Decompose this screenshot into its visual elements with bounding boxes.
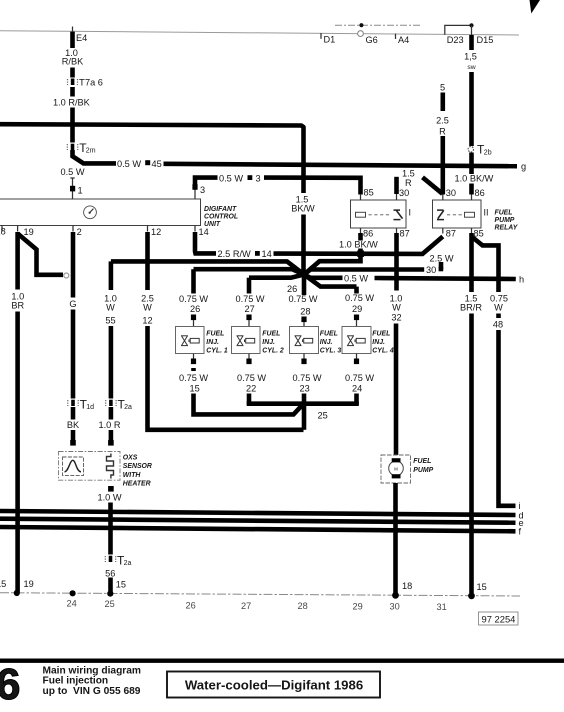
svg-text:0.5 W: 0.5 W [219,173,243,183]
wire segment crossing bus to T2m [70,108,75,143]
wire segment [440,93,445,112]
wire run to h [375,278,516,279]
junction node at relay I pin 86 [357,250,364,257]
svg-text:31: 31 [437,602,447,612]
svg-text:II: II [484,208,489,218]
svg-text:D1: D1 [324,35,336,45]
wire run to x=422.5 and diagonal up to relay II pin 87 [274,237,443,254]
injector 3 return wire to corner line [302,394,307,430]
svg-text:G: G [69,299,76,309]
top rail (thin continuation line) [0,31,519,35]
svg-text:HEATER: HEATER [123,481,151,488]
contact symbol [394,209,401,211]
svg-text:W: W [494,303,503,313]
relay I pin 87 tick [396,228,398,234]
wire segment below T7a [70,87,75,97]
junction dot above G6 [359,23,363,27]
svg-text:SENSOR: SENSOR [123,463,152,470]
relay II pin 87 tick [442,228,444,234]
svg-text:27: 27 [241,601,251,611]
injector 4 bottom pin [356,354,358,360]
connector T2a [105,400,107,406]
injector return bus [247,401,359,406]
pin 2 (bottom) [72,226,74,232]
rail junction dots [14,590,20,596]
tick D1 [320,33,322,39]
svg-text:29: 29 [352,304,362,314]
branch to ground point C [18,234,63,275]
svg-text:0.75 W: 0.75 W [236,294,265,304]
svg-text:R/BK: R/BK [62,57,84,67]
wire segment [469,35,474,50]
relay I pin 86 stub wire [358,233,363,241]
wire number 3 [248,175,253,180]
pump motor circle [389,461,404,476]
svg-text:87: 87 [446,229,456,239]
wire pin 19 upper [15,232,20,290]
svg-text:DIGIFANT: DIGIFANT [204,206,237,213]
svg-text:14: 14 [199,227,209,237]
svg-text:0.5 W: 0.5 W [344,273,368,283]
bracket D23 to D15 [445,25,472,34]
svg-text:PUMP: PUMP [495,217,515,224]
lambda sensor inner box [63,457,84,475]
wire down to i stub [499,330,516,506]
wire down to pump [394,324,399,457]
svg-text:5: 5 [440,83,445,93]
svg-text:30: 30 [390,602,400,612]
injector 1 bottom pin [193,354,195,360]
svg-text:22: 22 [246,384,256,394]
wire number 14 [255,251,260,256]
wire run down to lower T2a [108,503,113,555]
injector N1 feed wire [191,269,196,293]
svg-text:2a: 2a [124,404,132,411]
pin 3 (top) [194,184,196,199]
svg-text:CYL. 2: CYL. 2 [262,348,284,355]
injector 2 bottom pin [248,354,250,360]
svg-text:30: 30 [446,188,456,198]
relay II pin 30 tick [442,194,444,200]
wire bend from T2m to 0.5W/45 line [73,150,117,163]
pin stub into injector 2 [246,315,251,321]
svg-text:RELAY: RELAY [495,225,519,232]
svg-text:FUEL: FUEL [372,331,390,338]
branch to 0.75W/48 column [472,237,499,293]
injector 2 return wire [247,394,252,406]
wire 1.5 BR/R upper [469,233,474,292]
svg-text:12: 12 [142,316,152,326]
svg-text:3: 3 [200,185,205,195]
svg-text:87: 87 [400,229,410,239]
svg-text:55: 55 [105,316,115,326]
svg-text:30: 30 [399,188,409,198]
svg-text:PUMP: PUMP [413,467,433,474]
svg-text:30: 30 [426,265,436,275]
svg-text:19: 19 [24,579,34,589]
control unit box U1 [0,199,201,226]
svg-text:OXS: OXS [123,455,138,462]
svg-text:1: 1 [78,186,83,196]
relay I pin 85 tick [360,194,362,200]
wire segment to pin 86 [469,184,474,195]
wire pin3 up and right [195,178,218,186]
svg-text:M: M [394,466,398,471]
lambda curve [65,460,82,472]
ground point C (open circle) [64,273,69,278]
svg-text:7a 6: 7a 6 [85,78,103,88]
wire segment to T2b [469,72,474,146]
pin 14 (bottom) [194,226,196,232]
coil symbol [465,212,475,217]
connector T2a (lower) [104,556,106,562]
heater resistor zig-zag [107,454,114,479]
svg-text:45: 45 [152,159,162,169]
pin 19 (bottom) [17,226,19,232]
svg-text:up to VIN G 055 689: up to VIN G 055 689 [43,686,141,697]
svg-text:86: 86 [363,229,373,239]
svg-text:BK: BK [67,420,80,430]
svg-text:19: 19 [24,227,34,237]
svg-text:14: 14 [262,249,272,259]
svg-text:15: 15 [0,579,6,589]
dashed link [369,214,392,216]
relay II box [433,200,482,228]
injector 4 box [342,327,371,354]
svg-text:24: 24 [67,599,77,609]
bus vertical lower segment to fan [301,215,306,273]
fan link to OXS heater column [111,261,304,274]
svg-text:Water-cooled—Digifant 1986: Water-cooled—Digifant 1986 [185,678,363,693]
pin 12 (bottom) [147,226,149,232]
svg-text:97 2254: 97 2254 [482,613,516,624]
relay I box [351,200,407,228]
svg-text:0.5 W: 0.5 W [117,159,141,169]
fan link up-right to node 86 [304,253,361,275]
svg-text:g: g [521,162,526,172]
svg-text:0.75 W: 0.75 W [293,373,322,383]
svg-text:0.75 W: 0.75 W [179,373,208,383]
tick A4 [395,34,397,39]
wire 1.5 BR/R to rail [469,314,474,594]
svg-text:INJ.: INJ. [206,339,219,346]
wire from relay I pin 87 down [394,233,399,291]
svg-text:25: 25 [318,411,328,421]
svg-text:1.5: 1.5 [402,169,415,179]
svg-text:i: i [519,501,521,511]
svg-text:CONTROL: CONTROL [204,214,238,221]
svg-text:1.0 R/BK: 1.0 R/BK [53,98,91,108]
svg-text:W: W [106,303,115,313]
injector 3 symbol [295,336,313,346]
fan vertical down (injector 3 feed) [302,272,307,295]
connector T2m [66,144,68,150]
svg-text:2m: 2m [86,148,96,155]
svg-text:86: 86 [475,188,485,198]
svg-text:2.5 R/W: 2.5 R/W [218,249,252,259]
title box [167,672,380,698]
pin stub into injector 4 [354,315,359,321]
separator rule [0,659,564,663]
svg-text:FUEL: FUEL [413,458,431,465]
svg-text:28: 28 [300,307,310,317]
wire into OXS box [71,430,76,445]
svg-text:1.0 BK/W: 1.0 BK/W [455,173,494,183]
svg-text:INJ.: INJ. [320,339,333,346]
svg-text:15: 15 [477,582,487,592]
fan link to injector 1 [194,269,305,274]
svg-text:CYL. 4: CYL. 4 [372,348,394,355]
bus wire with corner [0,124,304,193]
node G6 (open circle on rail) [358,31,364,37]
svg-text:INJ.: INJ. [372,339,385,346]
svg-text:FUEL: FUEL [206,331,224,338]
svg-text:BK/W: BK/W [291,204,315,214]
pump brushes (black tabs) [392,458,401,462]
corner marker triangle (top right) [530,0,541,14]
wire down and corner right to injector return [148,326,304,430]
wire into OXS box [109,430,114,445]
wire segment above T7a [70,68,75,78]
wire segment to T1d [71,310,76,399]
svg-text:0.75 W: 0.75 W [237,373,266,383]
wire number 45 on g-line [145,160,150,165]
injector N4 feed wire [354,287,359,294]
svg-text:R: R [439,126,446,136]
svg-text:28: 28 [298,601,308,611]
wire segment crossing bus g [469,153,474,175]
fan link to injector 2 [249,275,304,278]
svg-text:0.75 W: 0.75 W [345,293,374,303]
svg-text:29: 29 [353,602,363,612]
pin stub into injector 1 [191,315,196,321]
injector N2 feed wire [247,278,252,294]
injector 1 return wire down-right [194,368,304,414]
wire pin14 down and right [195,232,216,253]
wire segment below T2a [109,407,114,420]
dashed link [447,214,462,216]
svg-text:23: 23 [300,384,310,394]
svg-text:24: 24 [352,384,362,394]
fan link right: wire 30 [304,270,424,275]
connector T1d [67,400,69,406]
wire E4 upper segment [70,32,75,48]
svg-text:1.0 W: 1.0 W [98,493,122,503]
svg-text:25: 25 [105,599,115,609]
pump output wire to rail [393,483,398,593]
wire 0.5W/45 long run to g [164,164,518,166]
clock symbol inside unit [84,206,97,219]
thin lead below dot [471,25,473,36]
connector T2b [468,147,473,152]
svg-text:3: 3 [256,174,261,184]
coil symbol [356,212,366,217]
svg-text:2.5 W: 2.5 W [430,253,454,263]
svg-text:E4: E4 [76,33,87,43]
svg-text:FUEL: FUEL [262,331,280,338]
pin 18 (bottom, clipped at left edge) [1,226,3,232]
svg-text:W: W [143,303,152,313]
wire segment to T2a [109,326,114,399]
svg-text:0.75 W: 0.75 W [289,294,318,304]
svg-text:56: 56 [105,569,115,579]
fan link down-right to injector 4 [304,275,357,287]
svg-text:A4: A4 [398,35,409,45]
svg-text:INJ.: INJ. [262,339,275,346]
svg-text:f: f [519,527,522,537]
svg-text:26: 26 [287,284,297,294]
wire segment crossing bus g to pin 30 [440,136,445,195]
relay I pin 30 stub [394,177,399,194]
fan link right: 0.5 W to h [304,275,343,278]
svg-text:27: 27 [245,304,255,314]
svg-text:G6: G6 [366,35,378,45]
relay II pin 85 tick [471,228,473,234]
injector 1 box [176,327,205,354]
svg-text:1,5: 1,5 [464,52,477,62]
svg-text:2.5: 2.5 [436,116,449,126]
fuel pump box [381,455,411,483]
dash-dot continuation line above G6 [335,24,420,26]
injector 2 box [232,327,261,354]
svg-text:WITH: WITH [123,472,142,479]
svg-text:0.75 W: 0.75 W [179,294,208,304]
relay II pin 86 tick [471,194,473,200]
svg-text:FUEL: FUEL [495,210,513,217]
injector 4 return wire [354,394,359,406]
svg-text:BR/R: BR/R [460,303,482,313]
pin 1 (top) [72,178,74,200]
connector T7a/6 [67,79,69,85]
svg-text:R: R [405,178,412,188]
wire segment [496,314,501,319]
svg-text:18: 18 [402,581,412,591]
svg-text:32: 32 [391,313,401,323]
injector 3 box [290,327,319,354]
line f [0,527,516,531]
svg-text:1.0 R: 1.0 R [99,420,121,430]
svg-text:12: 12 [151,227,161,237]
wire upper segment [145,232,150,290]
svg-text:26: 26 [186,601,196,611]
svg-text:FUEL: FUEL [320,331,338,338]
wire segment below T1d [71,407,76,420]
contact symbol [437,209,444,211]
svg-text:26: 26 [190,304,200,314]
svg-text:sw: sw [467,64,475,71]
tick E4 [72,27,74,32]
wire corner from fan line down [109,261,114,290]
svg-text:BR: BR [11,301,24,311]
svg-text:D23: D23 [447,35,464,45]
svg-text:1.0 BK/W: 1.0 BK/W [339,240,378,250]
injector 3 bottom pin [303,354,305,360]
svg-text:48: 48 [493,320,503,330]
wire to rail [108,578,113,593]
wire pin 19 lower run to bottom rail [15,312,20,593]
dot on D15 wire top [469,23,473,27]
pin stub into injector 3 [301,317,306,323]
wire upper segment [71,232,76,298]
svg-text:1d: 1d [86,404,94,411]
svg-text:I: I [409,208,412,218]
svg-text:85: 85 [364,188,374,198]
injector 4 symbol [347,336,365,346]
injector 2 symbol [237,336,255,346]
svg-text:D15: D15 [477,35,494,45]
svg-text:W: W [392,303,401,313]
svg-text:15: 15 [116,579,126,589]
svg-text:h: h [519,274,524,284]
svg-text:0.5 W: 0.5 W [61,167,85,177]
line e [0,519,516,523]
svg-text:15: 15 [190,384,200,394]
line d [0,511,516,515]
diagonal stub into relay II pin 30 [423,177,443,194]
svg-text:2a: 2a [124,560,132,567]
svg-text:76: 76 [0,660,21,709]
svg-text:CYL. 3: CYL. 3 [320,348,342,355]
svg-text:0.75 W: 0.75 W [345,373,374,383]
svg-text:CYL. 1: CYL. 1 [206,348,228,355]
svg-text:18: 18 [0,227,6,237]
wire run to relay I pin 85 [264,178,361,195]
wire stub below OXS [108,486,114,492]
relay I pin 86 tick [360,228,362,234]
injector 1 symbol [181,336,199,346]
svg-text:2b: 2b [484,150,492,157]
svg-text:2: 2 [77,227,82,237]
outer dashed box [59,452,121,481]
